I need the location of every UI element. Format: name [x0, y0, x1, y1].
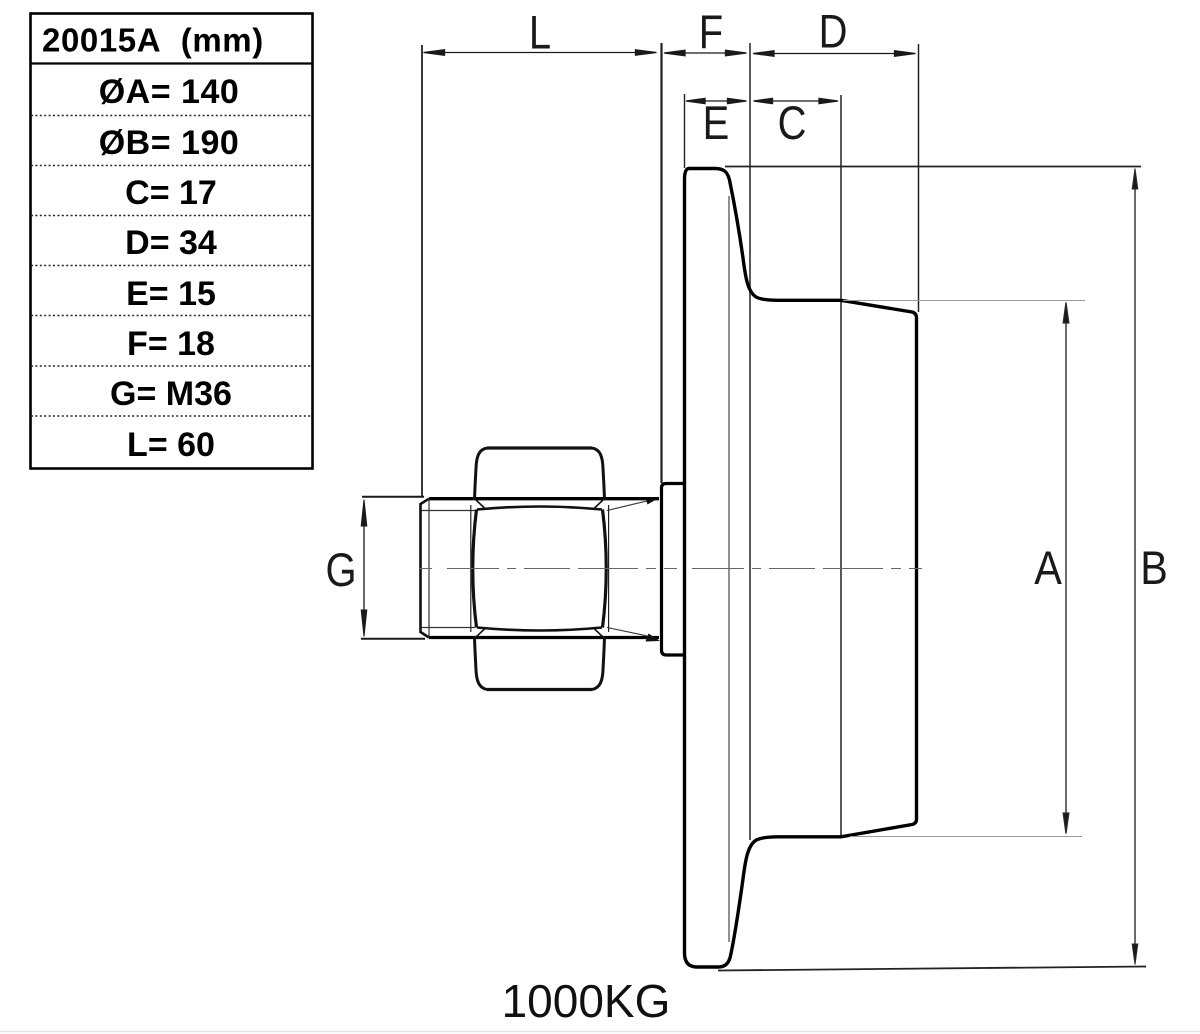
svg-text:C: C: [778, 98, 807, 150]
svg-text:ØA= 140: ØA= 140: [99, 73, 240, 111]
svg-text:ØB= 190: ØB= 190: [99, 124, 240, 162]
svg-text:G= M36: G= M36: [110, 375, 232, 413]
svg-text:B: B: [1140, 543, 1168, 595]
svg-text:D: D: [819, 7, 848, 59]
svg-text:L: L: [529, 8, 551, 60]
svg-text:G: G: [325, 545, 356, 597]
svg-text:E= 15: E= 15: [126, 275, 216, 313]
svg-text:F= 18: F= 18: [127, 325, 215, 363]
svg-text:1000KG: 1000KG: [502, 975, 671, 1027]
svg-text:C= 17: C= 17: [125, 174, 217, 212]
svg-text:A: A: [1034, 543, 1062, 595]
svg-text:D= 34: D= 34: [125, 224, 217, 262]
svg-text:E: E: [703, 98, 730, 150]
svg-text:20015A (mm): 20015A (mm): [42, 22, 264, 59]
svg-text:L= 60: L= 60: [127, 426, 215, 464]
svg-text:F: F: [699, 7, 723, 59]
